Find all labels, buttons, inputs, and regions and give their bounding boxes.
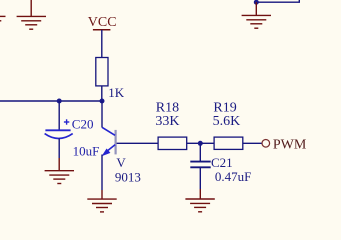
- wire (node to R19): [200, 142, 214, 144]
- svg-text:PWM: PWM: [273, 137, 307, 152]
- svg-text:1K: 1K: [108, 85, 125, 100]
- ground (under C21): [185, 199, 214, 212]
- svg-text:0.47uF: 0.47uF: [215, 169, 251, 184]
- wire (1K to collector node): [101, 86, 103, 101]
- svg-text:V: V: [116, 155, 126, 170]
- svg-text:VCC: VCC: [88, 15, 117, 30]
- wire (R19 to port): [243, 142, 262, 144]
- ground (partial, clipped at left edge): [0, 16, 6, 20]
- ground (top right): [242, 2, 271, 28]
- wire (C20 to ground): [58, 138, 60, 170]
- wire (node down to C21): [199, 143, 201, 161]
- wire (top right, to edge): [256, 0, 299, 2]
- port PWM: [262, 137, 307, 152]
- node junction (R18/R19/C21): [198, 141, 203, 146]
- wire (C21 to ground): [199, 167, 201, 199]
- svg-text:33K: 33K: [155, 114, 179, 129]
- resistor R19 5.6K: [213, 100, 243, 149]
- power VCC: [88, 15, 117, 30]
- ground (emitter): [87, 199, 116, 212]
- transistor V 9013: [102, 127, 141, 184]
- wire (VCC to R 1K): [101, 30, 103, 58]
- capacitor C21 0.47uF: [190, 155, 251, 184]
- wire (main horizontal from left edge): [0, 100, 102, 102]
- svg-text:9013: 9013: [115, 170, 141, 185]
- wire (base to R18): [117, 142, 159, 144]
- wire (collector node down): [101, 101, 103, 128]
- ground (top left): [17, 0, 46, 29]
- node junction (C20 tap): [57, 99, 62, 104]
- node junction (collector node): [100, 99, 105, 104]
- node junction (top right): [254, 0, 259, 5]
- wire (emitter to ground): [101, 155, 103, 200]
- svg-text:5.6K: 5.6K: [213, 114, 241, 129]
- svg-text:C20: C20: [72, 116, 94, 131]
- wire (node down to C20): [58, 101, 60, 130]
- ground (under C20): [45, 171, 74, 184]
- resistor R18 33K: [155, 100, 186, 149]
- svg-text:10uF: 10uF: [73, 144, 100, 159]
- wire (R18 to node): [187, 142, 201, 144]
- resistor 1K: [96, 58, 125, 101]
- svg-text:C21: C21: [211, 155, 233, 170]
- capacitor C20: [45, 116, 100, 158]
